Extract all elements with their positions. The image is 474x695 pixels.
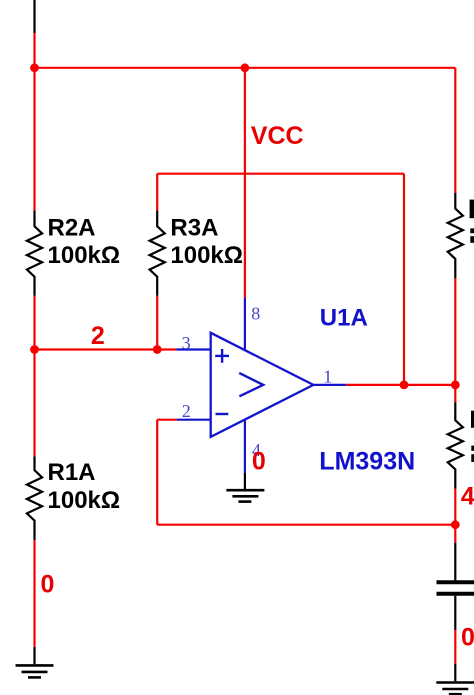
resistor R5A top right — [448, 193, 463, 278]
op-amp pin 8 lead — [244, 298, 246, 350]
resistor R2A — [27, 211, 42, 296]
resistor R4A bottom right — [448, 403, 463, 489]
wire pin2 feedback horizontal from op-amp — [157, 419, 177, 421]
wire pin2 feedback vertical x157 — [156, 420, 158, 525]
svg-text:3: 3 — [182, 333, 191, 353]
wire node 4 down to capacitor — [454, 525, 456, 543]
ground below op-amp pin 4 — [226, 473, 264, 502]
wire R3A top vertical — [156, 174, 158, 211]
node junction dot node 4 — [451, 520, 460, 529]
svg-text:VCC: VCC — [251, 122, 304, 150]
wire black stub top-left — [33, 0, 35, 33]
resistor R5A name label clipped — [470, 200, 474, 219]
op-amp minus input marking — [216, 413, 229, 415]
wire VCC inner rail horizontal y174 — [157, 173, 404, 175]
svg-text:U1A: U1A — [320, 305, 368, 332]
resistor R3A — [150, 211, 165, 296]
op-amp pin 3 lead — [176, 348, 210, 350]
resistor R1A — [27, 456, 42, 540]
op-amp pin 4 lead — [244, 420, 246, 473]
wire node 2 horizontal rail — [35, 348, 177, 350]
wire R2A bottom to node 2 — [33, 296, 35, 350]
wire node2 down to R1A — [33, 350, 35, 457]
svg-text:2: 2 — [182, 401, 191, 421]
svg-text:R3A: R3A — [170, 215, 218, 242]
wire R1A bottom to ground — [33, 540, 35, 647]
svg-text:4: 4 — [461, 483, 474, 511]
node junction dot node2 left — [30, 345, 39, 354]
wire R3A bottom to node 2 — [156, 296, 158, 350]
wire left column VCC rail to R2A — [33, 68, 35, 211]
svg-text:0: 0 — [252, 447, 266, 475]
ground bottom-left — [16, 647, 54, 678]
wire output node to R4A — [454, 385, 456, 403]
resistor R5A value label clipped — [470, 228, 474, 233]
ground bottom-right — [436, 664, 474, 695]
wire right column from VCC rail down — [454, 68, 456, 193]
node junction dot node2 right — [153, 345, 162, 354]
wire output pin1 to right column — [346, 384, 455, 386]
capacitor C1 — [437, 543, 474, 630]
svg-text:0: 0 — [461, 624, 474, 652]
op-amp pin 1 lead — [313, 384, 346, 386]
wire red top-left vertical into VCC rail — [33, 33, 35, 68]
op-amp plus input marking — [215, 349, 229, 363]
node junction dot top-left — [30, 63, 39, 72]
svg-text:R1A: R1A — [48, 459, 96, 486]
svg-text:8: 8 — [251, 303, 260, 323]
wire R5A bottom to output node — [454, 278, 456, 385]
op-amp pin 2 lead — [177, 419, 211, 421]
svg-text:100kΩ: 100kΩ — [48, 242, 121, 269]
op-amp U1A triangle — [211, 333, 314, 437]
resistor R4A value label clipped — [471, 446, 474, 451]
svg-text:0: 0 — [41, 571, 55, 599]
node junction dot top pin8 column — [241, 63, 250, 72]
node junction dot output right — [451, 381, 460, 390]
node junction dot output x404 — [400, 381, 409, 390]
svg-text:R2A: R2A — [48, 215, 96, 242]
svg-text:LM393N: LM393N — [319, 448, 415, 476]
wire capacitor bottom red segment — [454, 630, 456, 664]
svg-text:1: 1 — [323, 366, 332, 386]
svg-text:100kΩ: 100kΩ — [170, 242, 243, 269]
wire pin8 column vertical from VCC rail — [244, 68, 246, 298]
wire R4A bottom to node 4 — [454, 489, 456, 525]
svg-text:2: 2 — [91, 322, 105, 350]
wire VCC top rail horizontal — [33, 67, 455, 69]
wire node 4 horizontal rail — [157, 524, 455, 526]
wire feedback column vertical x404 — [403, 174, 405, 385]
op-amp comparator marking — [239, 373, 263, 396]
resistor R4A name label clipped — [471, 411, 474, 428]
svg-text:100kΩ: 100kΩ — [48, 487, 121, 514]
